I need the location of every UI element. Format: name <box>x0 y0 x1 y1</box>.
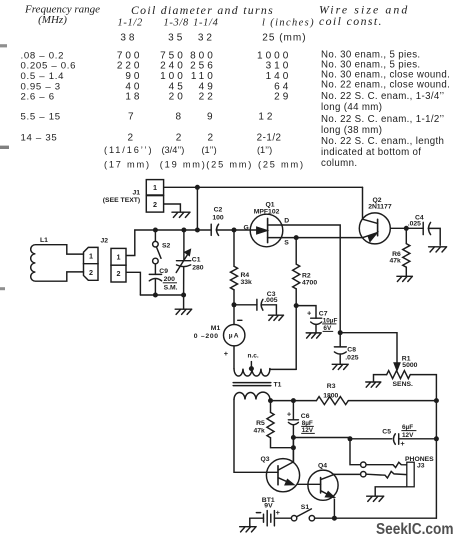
svg-text:.025: .025 <box>408 221 421 228</box>
svg-text:18: 18 <box>125 92 142 103</box>
svg-text:.005: .005 <box>264 297 277 304</box>
svg-text:1: 1 <box>117 252 121 261</box>
svg-text:32: 32 <box>198 32 215 43</box>
svg-text:12V: 12V <box>402 432 414 439</box>
svg-text:7: 7 <box>128 111 137 122</box>
svg-text:+: + <box>307 309 312 318</box>
svg-text:L1: L1 <box>40 237 48 244</box>
svg-text:+: + <box>224 349 229 358</box>
svg-text:R5: R5 <box>256 420 265 427</box>
svg-text:47k: 47k <box>253 427 265 434</box>
svg-text:2: 2 <box>127 132 136 143</box>
svg-text:J1: J1 <box>133 189 141 196</box>
svg-text:2: 2 <box>153 200 157 209</box>
svg-text:Q4: Q4 <box>318 463 327 470</box>
svg-text:2: 2 <box>176 132 185 143</box>
svg-text:C7: C7 <box>319 310 328 317</box>
svg-text:S: S <box>284 240 289 247</box>
svg-text:MPF102: MPF102 <box>254 208 280 215</box>
svg-text:No. 22 enam., close wound.: No. 22 enam., close wound. <box>321 79 450 90</box>
svg-text:(11/16’’): (11/16’’) <box>104 145 153 155</box>
svg-text:1: 1 <box>153 183 157 192</box>
svg-text:280: 280 <box>192 265 204 272</box>
svg-text:.025: .025 <box>345 355 358 362</box>
svg-text:1-1/2: 1-1/2 <box>117 18 142 29</box>
svg-text:12V: 12V <box>302 427 314 434</box>
svg-text:8: 8 <box>175 111 184 122</box>
svg-text:µA: µA <box>229 333 240 340</box>
svg-text:(19 mm): (19 mm) <box>160 159 207 169</box>
svg-text:5000: 5000 <box>402 362 417 369</box>
svg-text:SENS.: SENS. <box>393 381 414 388</box>
svg-text:indicated at bottom of: indicated at bottom of <box>321 147 421 158</box>
svg-text:12: 12 <box>258 111 275 122</box>
svg-text:2: 2 <box>117 269 121 278</box>
svg-text:2-1/2: 2-1/2 <box>257 132 282 143</box>
svg-text:C9: C9 <box>159 268 168 275</box>
svg-text:Q3: Q3 <box>261 456 270 463</box>
svg-text:(MHz): (MHz) <box>38 14 67 26</box>
svg-text:S2: S2 <box>162 242 171 249</box>
svg-text:C1: C1 <box>192 257 201 264</box>
svg-text:25 (mm): 25 (mm) <box>262 32 306 43</box>
svg-text:(25 mm): (25 mm) <box>206 159 253 169</box>
svg-text:C6: C6 <box>301 413 310 420</box>
svg-text:35: 35 <box>168 32 185 43</box>
svg-text:C2: C2 <box>214 206 223 213</box>
svg-text:(1’’): (1’’) <box>257 145 272 155</box>
svg-text:(SEE TEXT): (SEE TEXT) <box>103 197 140 204</box>
svg-text:47k: 47k <box>389 258 401 265</box>
svg-text:1: 1 <box>89 251 93 260</box>
svg-text:0 –200: 0 –200 <box>194 333 219 340</box>
svg-text:Coil diameter and turns: Coil diameter and turns <box>131 3 274 17</box>
svg-text:5.5 – 15: 5.5 – 15 <box>21 111 61 122</box>
svg-text:SeekIC.com: SeekIC.com <box>376 521 454 538</box>
svg-text:200: 200 <box>164 276 176 283</box>
svg-text:No. 22 S. C. enam., 1-3/4’’: No. 22 S. C. enam., 1-3/4’’ <box>321 91 444 102</box>
svg-text:S.M.: S.M. <box>164 284 178 291</box>
svg-text:No. 22 S. C. enam., length: No. 22 S. C. enam., length <box>321 136 444 147</box>
svg-text:(1’’): (1’’) <box>202 145 217 155</box>
svg-text:29: 29 <box>274 92 291 103</box>
svg-text:n.c.: n.c. <box>248 353 259 360</box>
svg-text:coil const.: coil const. <box>319 14 383 28</box>
svg-text:20: 20 <box>169 92 186 103</box>
svg-text:long (38 mm): long (38 mm) <box>321 125 382 136</box>
svg-text:14 – 35: 14 – 35 <box>21 132 58 143</box>
svg-text:38: 38 <box>120 32 137 43</box>
svg-text:S1: S1 <box>301 504 310 511</box>
svg-text:33k: 33k <box>241 279 253 286</box>
svg-text:J2: J2 <box>101 238 109 245</box>
svg-text:No. 22 S. C. enam., 1-1/2’’: No. 22 S. C. enam., 1-1/2’’ <box>321 114 444 125</box>
svg-text:+: + <box>276 508 281 517</box>
svg-text:M1: M1 <box>211 325 221 332</box>
svg-text:(25 mm): (25 mm) <box>258 159 305 169</box>
svg-text:(3/4’’): (3/4’’) <box>162 145 185 155</box>
svg-text:R3: R3 <box>327 383 336 390</box>
svg-text:9: 9 <box>207 111 216 122</box>
svg-text:1800: 1800 <box>323 392 338 399</box>
svg-text:R4: R4 <box>241 272 250 279</box>
svg-text:G: G <box>244 225 249 232</box>
svg-text:1-3/8: 1-3/8 <box>163 18 189 29</box>
svg-text:l (inches): l (inches) <box>262 18 315 29</box>
svg-text:column.: column. <box>321 158 357 169</box>
svg-text:2.6 – 6: 2.6 – 6 <box>21 92 55 103</box>
svg-text:22: 22 <box>199 92 216 103</box>
svg-text:(17 mm): (17 mm) <box>104 159 151 169</box>
svg-text:+: + <box>287 410 292 419</box>
svg-text:10µF: 10µF <box>323 317 338 324</box>
svg-text:T1: T1 <box>274 381 282 388</box>
svg-text:J3: J3 <box>417 463 425 470</box>
svg-text:long (44 mm): long (44 mm) <box>321 102 382 113</box>
svg-text:+: + <box>400 439 405 448</box>
svg-text:2: 2 <box>207 132 216 143</box>
svg-text:8µF: 8µF <box>302 420 313 427</box>
svg-text:D: D <box>284 218 289 225</box>
svg-text:4700: 4700 <box>302 279 317 286</box>
svg-text:R2: R2 <box>302 272 311 279</box>
svg-text:1-1/4: 1-1/4 <box>193 18 218 29</box>
svg-text:2: 2 <box>89 268 93 277</box>
svg-text:9V: 9V <box>264 503 273 510</box>
svg-text:C8: C8 <box>347 346 356 353</box>
svg-text:100: 100 <box>212 214 224 221</box>
svg-text:C5: C5 <box>382 429 391 436</box>
svg-text:2N1177: 2N1177 <box>368 203 392 210</box>
